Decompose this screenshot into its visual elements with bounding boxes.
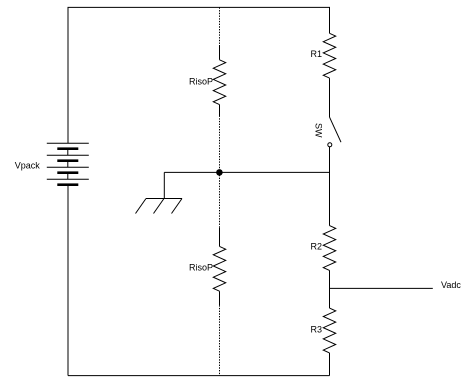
svg-text:RisoP: RisoP bbox=[189, 77, 213, 87]
wire top rail bbox=[68, 7, 330, 143]
ground bbox=[136, 172, 183, 213]
wire left rail bottom bbox=[67, 186, 69, 376]
svg-text:Vpack: Vpack bbox=[15, 160, 41, 170]
svg-text:R1: R1 bbox=[310, 49, 322, 59]
resistor RisoP top bbox=[213, 45, 225, 116]
resistor RisoP bottom bbox=[213, 228, 225, 306]
battery Vpack bbox=[47, 143, 89, 186]
wire R1 to switch bbox=[329, 78, 331, 117]
resistor R1 bbox=[323, 33, 335, 78]
wire R3 to bottom rail bbox=[329, 353, 331, 376]
wire switch to R2 bbox=[329, 147, 331, 226]
svg-text:SW: SW bbox=[313, 123, 323, 138]
wire dotted isolation bottom segment bbox=[219, 305, 221, 375]
wire bottom rail bbox=[68, 375, 330, 377]
wire dotted isolation middle segment bbox=[219, 116, 221, 228]
switch SW bbox=[328, 117, 341, 147]
wire Vadc tap bbox=[330, 287, 433, 289]
node junction dot bbox=[216, 169, 223, 176]
svg-text:R2: R2 bbox=[310, 241, 322, 251]
wire R2 to R3 bbox=[329, 270, 331, 308]
resistor R3 bbox=[323, 308, 335, 353]
svg-text:R3: R3 bbox=[310, 325, 322, 335]
svg-text:RisoP: RisoP bbox=[189, 263, 213, 273]
wire center horizontal bbox=[164, 171, 329, 173]
resistor R2 bbox=[323, 226, 335, 271]
svg-text:Vadc: Vadc bbox=[441, 280, 461, 290]
wire dotted isolation top segment bbox=[219, 7, 221, 45]
